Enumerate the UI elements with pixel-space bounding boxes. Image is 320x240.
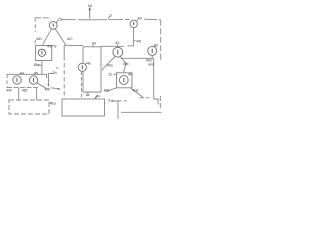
svg-text:34: 34 [92,40,97,45]
svg-text:15: 15 [58,16,62,21]
svg-text:45: 45 [34,70,38,75]
svg-text:40c: 40c [104,89,110,93]
svg-text:9: 9 [54,43,56,48]
svg-text:44b: 44b [6,89,12,93]
svg-text:2a: 2a [51,100,56,105]
svg-text:9: 9 [108,98,110,103]
svg-text:A/D: A/D [36,37,42,41]
svg-text:and: and [148,62,154,66]
svg-text:45b: 45b [44,87,50,91]
svg-text:2b: 2b [52,70,56,75]
svg-text:45a: 45a [34,63,40,67]
svg-text:40a: 40a [107,64,113,68]
svg-text:4x: 4x [87,60,91,65]
svg-text:40f: 40f [136,39,141,43]
svg-text:40b: 40b [123,62,129,66]
svg-text:40: 40 [154,42,159,47]
svg-text:4a: 4a [86,93,90,97]
svg-text:31: 31 [108,73,112,77]
svg-text:43: 43 [47,43,51,48]
svg-text:3: 3 [110,13,112,18]
svg-text:42: 42 [115,40,119,45]
svg-text:45b: 45b [22,89,28,93]
svg-text:1b: 1b [88,3,92,8]
svg-text:A/C: A/C [67,37,73,41]
svg-text:1c: 1c [97,94,101,98]
svg-text:40e: 40e [133,89,139,93]
svg-text:40: 40 [128,71,133,76]
svg-text:40: 40 [138,16,143,21]
